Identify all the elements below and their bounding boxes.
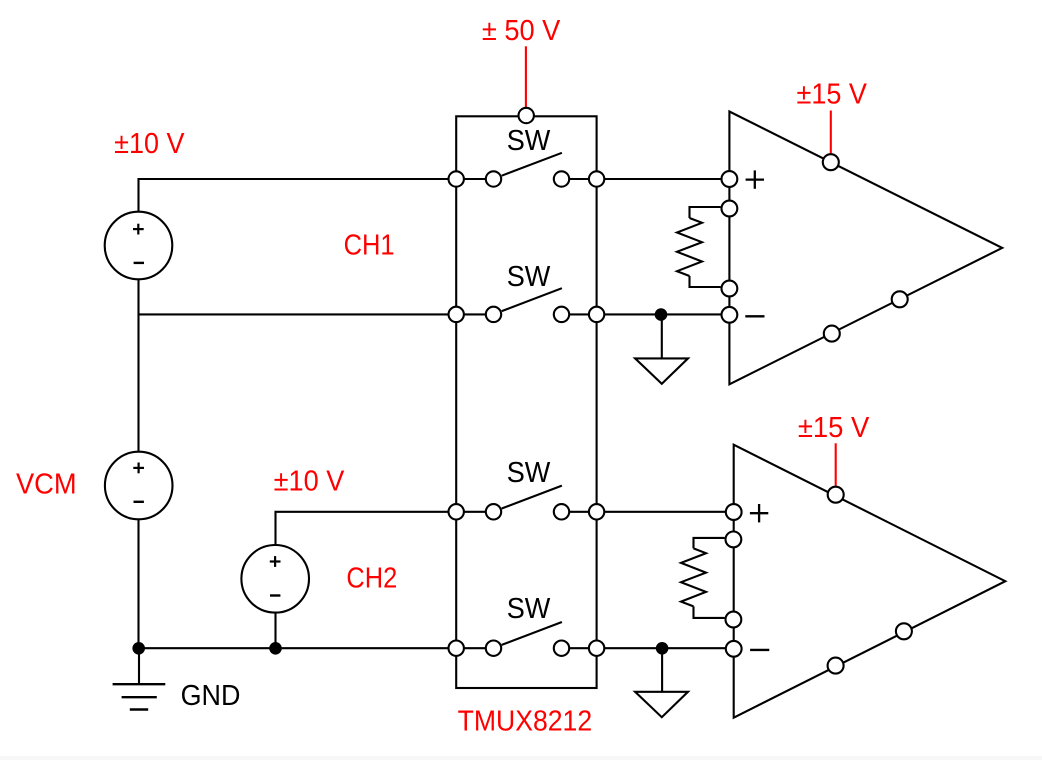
op-amp U1 plus sign xyxy=(746,170,764,188)
source V2 plus xyxy=(270,556,281,567)
svg-text:±15 V: ±15 V xyxy=(797,79,868,111)
op-amp U1 pin circles xyxy=(722,154,908,341)
switch SW2 wires xyxy=(456,288,596,314)
wire mux row3 to U2 + input xyxy=(597,511,734,513)
terminal circle mux supply pin xyxy=(519,108,534,123)
source VCM circle xyxy=(105,452,173,520)
wire V1 top to mux row1 xyxy=(139,179,457,212)
switch SW3 wires xyxy=(456,486,596,512)
switch SW1 wires xyxy=(456,153,596,179)
source V1 plus xyxy=(133,224,144,235)
junction dot at U1 - input net xyxy=(655,308,668,321)
source V1 circle xyxy=(105,212,173,280)
junction dot at U2 - input net xyxy=(656,642,669,655)
junction dot GND node left xyxy=(132,642,145,655)
svg-text:±15 V: ±15 V xyxy=(798,412,870,444)
op-amp U2 triangle xyxy=(734,445,1006,718)
source VCM minus xyxy=(134,501,144,503)
op-amp U2 pin circles xyxy=(726,487,912,674)
svg-text:GND: GND xyxy=(181,680,241,712)
op-amp U1 triangle xyxy=(729,112,1002,385)
svg-text:SW: SW xyxy=(507,593,551,625)
op-amp U2 plus sign xyxy=(750,504,768,522)
svg-text:SW: SW xyxy=(507,261,551,293)
svg-text:±10 V: ±10 V xyxy=(114,128,185,160)
wire V1 bottom to VCM top with tap to mux row2 xyxy=(139,279,457,452)
wire mux row1 to U1 + input xyxy=(597,178,730,180)
svg-text:CH1: CH1 xyxy=(344,230,395,262)
svg-text:±10 V: ±10 V xyxy=(274,466,345,498)
wire mux row4 to U2 - input xyxy=(597,647,734,649)
wire VCM bottom to ground rail xyxy=(137,520,139,649)
wire V2 bottom to ground rail xyxy=(274,613,276,649)
resistor R2 (U2 feedback) xyxy=(681,538,725,618)
source V1 minus xyxy=(134,262,144,264)
switch SW4 wires xyxy=(456,622,596,648)
switch SW3 terminal circles xyxy=(449,504,605,519)
wire V2 top to mux row3 xyxy=(276,512,457,545)
supply net ±50V red lead xyxy=(525,46,527,107)
source V2 minus xyxy=(270,594,280,596)
switch SW4 terminal circles xyxy=(449,641,605,656)
ground symbol (triangle) at U1 xyxy=(635,358,688,383)
wire ground rail to mux row4 xyxy=(139,647,457,649)
op-amp U1 minus sign xyxy=(745,315,764,317)
ground symbol GND (earth bars) xyxy=(113,648,166,709)
wire mux row2 to U1 - input xyxy=(597,313,730,315)
svg-text:SW: SW xyxy=(507,457,551,489)
mux box TMUX8212 xyxy=(456,116,596,688)
junction dot V2 ground connection xyxy=(269,642,282,655)
supply net ±15V red lead (op-amp U1) xyxy=(830,111,832,154)
switch SW1 terminal circles xyxy=(449,171,605,186)
ground symbol (triangle) at U2 xyxy=(635,692,688,717)
resistor R1 (U1 feedback) xyxy=(677,207,721,287)
source V2 circle xyxy=(241,545,309,613)
switch SW2 terminal circles xyxy=(449,307,605,322)
ground stub at U2 - input xyxy=(661,648,663,692)
svg-text:TMUX8212: TMUX8212 xyxy=(458,705,593,737)
supply net ±15V red lead (op-amp U2) xyxy=(835,443,837,486)
source VCM plus xyxy=(133,463,144,474)
svg-text:SW: SW xyxy=(507,125,551,157)
svg-text:CH2: CH2 xyxy=(346,563,397,595)
svg-text:VCM: VCM xyxy=(16,468,77,500)
ground stub at U1 - input xyxy=(661,315,663,359)
svg-text:± 50 V: ± 50 V xyxy=(482,15,561,47)
op-amp U2 minus sign xyxy=(750,649,769,651)
bottom page edge strip xyxy=(0,756,1042,760)
